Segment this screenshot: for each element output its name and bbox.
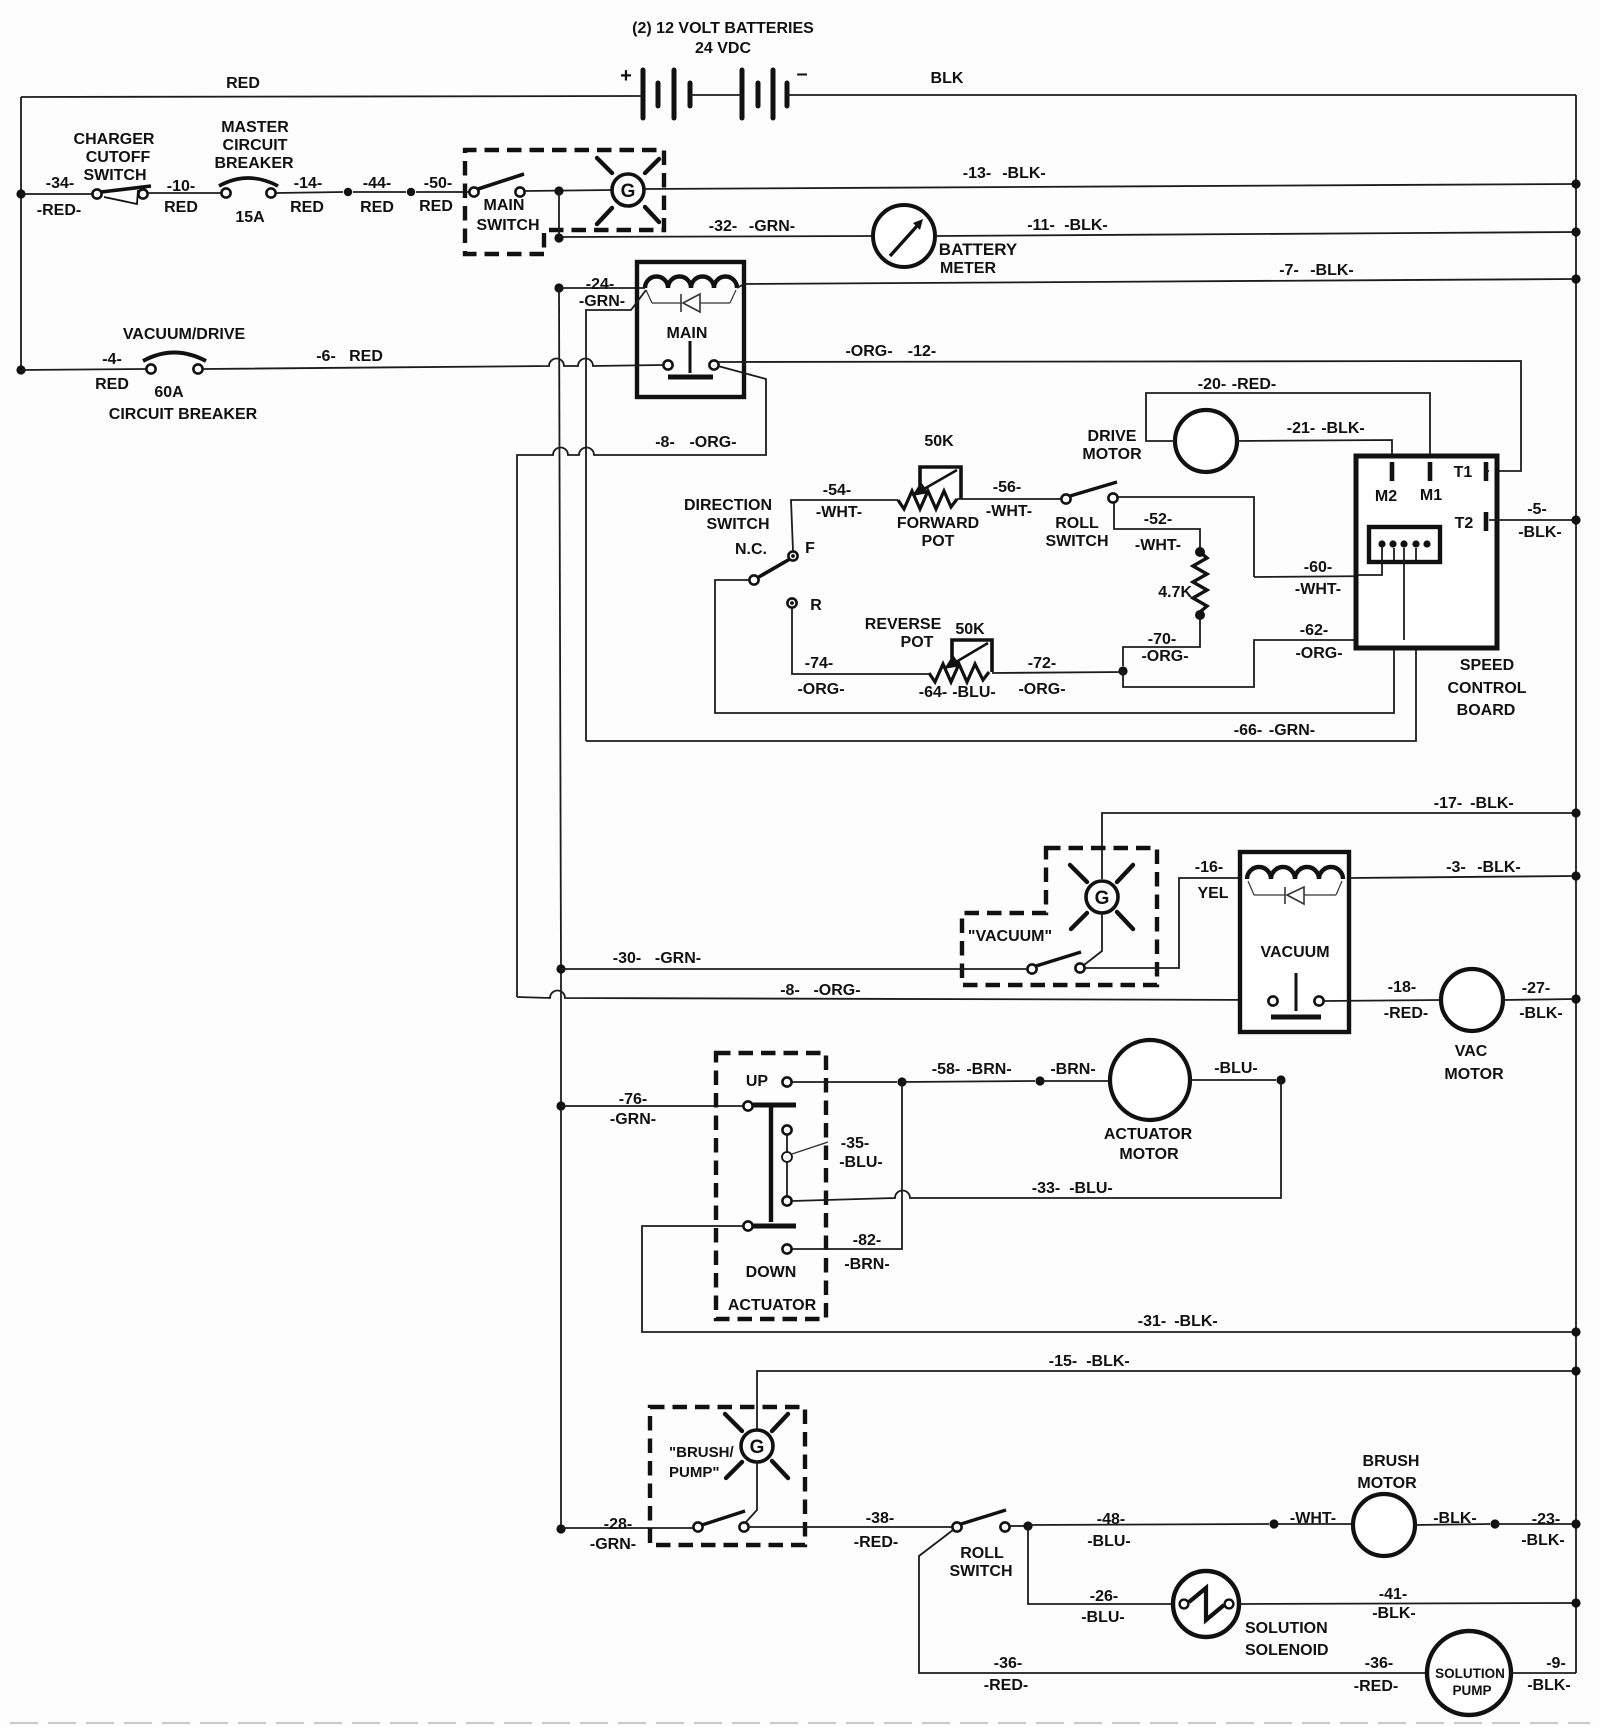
svg-text:-12-: -12- bbox=[908, 343, 936, 360]
svg-text:-32-: -32- bbox=[709, 218, 737, 235]
wire -15- -BLK- bbox=[757, 1371, 1576, 1430]
terminal M2 blade bbox=[1390, 462, 1395, 481]
wire -62- -ORG- bbox=[1123, 632, 1404, 687]
svg-text:-RED-: -RED- bbox=[984, 1677, 1028, 1694]
wire -60- -WHT- bbox=[1254, 576, 1382, 577]
svg-text:-16-: -16- bbox=[1195, 859, 1223, 876]
terminal dot -WHT- bbox=[1269, 1519, 1278, 1528]
svg-text:-BLK-: -BLK- bbox=[1518, 524, 1562, 541]
wire -38- -RED- bbox=[749, 1526, 953, 1528]
svg-text:-26-: -26- bbox=[1090, 1588, 1118, 1605]
svg-text:-WHT-: -WHT- bbox=[986, 503, 1032, 520]
wire -21- -BLK- bbox=[1237, 440, 1392, 462]
contactor K2 contact bbox=[1295, 973, 1298, 1011]
svg-text:"BRUSH/: "BRUSH/ bbox=[669, 1444, 734, 1461]
terminal dot -BLK- bbox=[1490, 1519, 1499, 1528]
svg-text:-70-: -70- bbox=[1148, 631, 1176, 648]
switch S3 blade bbox=[757, 559, 790, 578]
svg-text:MAIN: MAIN bbox=[484, 197, 525, 214]
junction dot rail -7- bbox=[1571, 274, 1580, 283]
wire -9- -BLK- bbox=[1511, 1672, 1576, 1674]
wire -7- -BLK- bbox=[744, 279, 1576, 284]
svg-text:-36-: -36- bbox=[1365, 1655, 1393, 1672]
svg-text:MASTER: MASTER bbox=[221, 119, 289, 136]
junction dot -28- bbox=[556, 1524, 565, 1533]
wire main switch to lamp bbox=[525, 190, 612, 191]
wire -4- RED bbox=[21, 369, 146, 370]
svg-text:BREAKER: BREAKER bbox=[214, 155, 294, 172]
svg-text:-74-: -74- bbox=[805, 655, 833, 672]
indicator lamp G2 vacuum bbox=[1086, 881, 1118, 913]
connector J1 bbox=[1369, 527, 1440, 562]
svg-text:RED: RED bbox=[349, 348, 383, 365]
wire -13- -BLK- lamp to rail bbox=[644, 184, 1576, 189]
svg-text:RED: RED bbox=[226, 75, 260, 92]
wire direction common return bbox=[715, 548, 1394, 713]
switch S3 direction R contact bbox=[787, 598, 796, 607]
svg-text:-6-: -6- bbox=[316, 348, 336, 365]
svg-text:15A: 15A bbox=[235, 209, 265, 226]
svg-text:-RED-: -RED- bbox=[1384, 1005, 1428, 1022]
solenoid L1 SOLUTION bbox=[1173, 1571, 1239, 1637]
svg-text:-BRN-: -BRN- bbox=[844, 1256, 889, 1273]
motor M3 VAC bbox=[1441, 969, 1503, 1031]
svg-text:-33-: -33- bbox=[1032, 1180, 1060, 1197]
contactor K1 coil bbox=[645, 277, 737, 289]
svg-text:FORWARD: FORWARD bbox=[897, 515, 979, 532]
pot R1 FORWARD 50K bbox=[898, 491, 957, 509]
svg-text:-BLK-: -BLK- bbox=[1477, 859, 1521, 876]
svg-text:-BLU-: -BLU- bbox=[1087, 1533, 1131, 1550]
svg-text:RED: RED bbox=[164, 199, 198, 216]
wire -82- -BRN- bbox=[792, 1082, 902, 1249]
svg-text:-BLK-: -BLK- bbox=[1321, 420, 1365, 437]
svg-text:POT: POT bbox=[901, 634, 934, 651]
svg-text:ACTUATOR: ACTUATOR bbox=[728, 1297, 817, 1314]
svg-text:-GRN-: -GRN- bbox=[1269, 722, 1315, 739]
svg-text:ROLL: ROLL bbox=[1055, 515, 1099, 532]
junction dot -58- bbox=[897, 1077, 906, 1086]
switch S6 actuator UP contact bbox=[782, 1077, 791, 1086]
svg-text:-10-: -10- bbox=[167, 178, 195, 195]
svg-text:-BLK-: -BLK- bbox=[1064, 217, 1108, 234]
wire pin3 drop bbox=[1403, 548, 1405, 640]
junction dot -32- bbox=[554, 233, 563, 242]
wire -32- -GRN- bbox=[559, 236, 873, 237]
svg-text:-9-: -9- bbox=[1546, 1655, 1566, 1672]
svg-text:G: G bbox=[1095, 888, 1110, 909]
junction dot -48- bbox=[1023, 1521, 1032, 1530]
switch S6 mid contacts bbox=[782, 1125, 791, 1134]
svg-text:-58-: -58- bbox=[932, 1061, 960, 1078]
svg-text:RED: RED bbox=[95, 376, 129, 393]
svg-text:T2: T2 bbox=[1455, 515, 1474, 532]
svg-text:-11-: -11- bbox=[1027, 217, 1055, 234]
junction dot -24- bbox=[554, 283, 563, 292]
junction dot rail -11- bbox=[1571, 227, 1580, 236]
wire -31- -BLK- bbox=[642, 1226, 1576, 1332]
wire -23- -BLK- bbox=[1495, 1523, 1576, 1525]
svg-text:-BLU-: -BLU- bbox=[1214, 1060, 1258, 1077]
wire roll sw to -60- corner bbox=[1117, 497, 1254, 577]
svg-text:-RED-: -RED- bbox=[854, 1534, 898, 1551]
svg-text:N.C.: N.C. bbox=[735, 541, 767, 558]
wire pin2 drop bbox=[1393, 548, 1395, 560]
svg-text:VACUUM/DRIVE: VACUUM/DRIVE bbox=[123, 326, 246, 343]
svg-text:PUMP: PUMP bbox=[1452, 1683, 1491, 1698]
svg-text:-21-: -21- bbox=[1287, 420, 1315, 437]
svg-text:SWITCH: SWITCH bbox=[476, 217, 539, 234]
node green bus vertical bbox=[559, 288, 561, 969]
wire -34- -RED- bbox=[21, 193, 92, 195]
wire -ORG- -12- to T1 bbox=[718, 361, 1521, 471]
svg-text:REVERSE: REVERSE bbox=[865, 616, 942, 633]
svg-text:-36-: -36- bbox=[994, 1655, 1022, 1672]
wire -66- -GRN- bbox=[586, 548, 1416, 741]
svg-text:DRIVE: DRIVE bbox=[1088, 428, 1137, 445]
switch S4 roll switch drive bbox=[1061, 494, 1070, 503]
wire -BRN- to actuator motor bbox=[1040, 1080, 1109, 1082]
brush/pump switch dashed box bbox=[650, 1407, 805, 1545]
svg-text:-35-: -35- bbox=[841, 1135, 869, 1152]
svg-text:-82-: -82- bbox=[853, 1232, 881, 1249]
wire lamp G3 lower lead bbox=[746, 1462, 757, 1522]
wire -52- -WHT- drop bbox=[1114, 503, 1200, 549]
svg-text:-WHT-: -WHT- bbox=[1135, 537, 1181, 554]
contactor K2 coil bbox=[1247, 867, 1343, 879]
wire -WHT- to brush motor bbox=[1274, 1523, 1353, 1525]
wire -58- -BRN- bbox=[902, 1081, 1035, 1082]
vacuum switch dashed box bbox=[962, 848, 1157, 985]
wire -11- -BLK- bbox=[936, 232, 1576, 236]
junction dot rail -23- bbox=[1571, 1519, 1580, 1528]
wire -41- -BLK- bbox=[1239, 1603, 1576, 1604]
svg-text:-ORG-: -ORG- bbox=[1018, 681, 1065, 698]
main switch dashed box bbox=[465, 150, 664, 254]
terminal M1 blade bbox=[1428, 462, 1433, 481]
svg-text:-30-: -30- bbox=[613, 950, 641, 967]
svg-text:MOTOR: MOTOR bbox=[1082, 446, 1142, 463]
svg-text:-BLK-: -BLK- bbox=[1310, 262, 1354, 279]
svg-text:-BLK-: -BLK- bbox=[1521, 1532, 1565, 1549]
svg-text:-BRN-: -BRN- bbox=[1050, 1061, 1095, 1078]
svg-text:-7-: -7- bbox=[1279, 262, 1299, 279]
switch S5 vacuum bbox=[1027, 964, 1036, 973]
wire F up to -54- bbox=[791, 500, 898, 551]
svg-text:4.7K: 4.7K bbox=[1158, 584, 1192, 601]
svg-text:-38-: -38- bbox=[866, 1510, 894, 1527]
svg-text:RED: RED bbox=[290, 199, 324, 216]
svg-text:-GRN-: -GRN- bbox=[655, 950, 701, 967]
wire coil right to -7- bbox=[737, 284, 744, 288]
wire -76- -GRN- bbox=[561, 1105, 744, 1107]
svg-text:CONTROL: CONTROL bbox=[1447, 680, 1526, 697]
junction dot rail -27- bbox=[1571, 994, 1580, 1003]
svg-text:M2: M2 bbox=[1375, 488, 1397, 505]
terminal dot bbox=[407, 188, 415, 196]
junction dot -70-/-72-/-62- bbox=[1118, 666, 1127, 675]
svg-text:-BLK-: -BLK- bbox=[1372, 1605, 1416, 1622]
svg-text:-31-: -31- bbox=[1138, 1313, 1166, 1330]
svg-text:-RED-: -RED- bbox=[1232, 376, 1276, 393]
terminal T2 blade bbox=[1484, 512, 1489, 531]
svg-text:24 VDC: 24 VDC bbox=[695, 40, 751, 57]
wire lamp G2 lower lead bbox=[1084, 913, 1102, 965]
switch S3 direction common bbox=[749, 575, 758, 584]
wire -33- -BLU- bbox=[792, 1080, 1281, 1201]
svg-text:-50-: -50- bbox=[424, 175, 452, 192]
svg-text:-WHT-: -WHT- bbox=[1290, 1510, 1336, 1527]
svg-text:F: F bbox=[805, 540, 815, 557]
battery B1 (2x12V) bbox=[643, 70, 787, 118]
circuit breaker CB2 60A bbox=[146, 364, 155, 373]
svg-text:-64-: -64- bbox=[919, 684, 947, 701]
svg-text:-WHT-: -WHT- bbox=[816, 504, 862, 521]
svg-text:-BLK-: -BLK- bbox=[1470, 795, 1514, 812]
svg-text:"VACUUM": "VACUUM" bbox=[968, 928, 1052, 945]
svg-text:-41-: -41- bbox=[1379, 1586, 1407, 1603]
svg-text:SWITCH: SWITCH bbox=[706, 516, 769, 533]
svg-text:-BLK-: -BLK- bbox=[1519, 1005, 1563, 1022]
svg-text:-5-: -5- bbox=[1527, 501, 1547, 518]
wire pin4 drop bbox=[1415, 548, 1417, 560]
junction dot -30- bbox=[556, 964, 565, 973]
svg-text:-60-: -60- bbox=[1304, 559, 1332, 576]
svg-text:-24-: -24- bbox=[586, 276, 614, 293]
svg-text:MOTOR: MOTOR bbox=[1444, 1066, 1504, 1083]
wire T2 -5- -BLK- bbox=[1489, 519, 1576, 521]
svg-text:-54-: -54- bbox=[823, 482, 851, 499]
junction dot rail -3- bbox=[1571, 871, 1580, 880]
wire -16- YEL bbox=[1085, 878, 1247, 968]
pot R2 REVERSE 50K bbox=[929, 664, 989, 682]
svg-text:SOLENOID: SOLENOID bbox=[1245, 1642, 1329, 1659]
wire -8- -ORG- lower run bbox=[517, 991, 1269, 1000]
svg-text:-BLU-: -BLU- bbox=[952, 684, 996, 701]
wire UP to -58- bbox=[792, 1081, 897, 1083]
indicator lamp G3 brush/pump bbox=[741, 1430, 773, 1462]
svg-text:RED: RED bbox=[360, 199, 394, 216]
wire -72- -ORG- bbox=[992, 672, 1123, 673]
wire -BLK- from brush motor bbox=[1415, 1524, 1490, 1525]
svg-text:SOLUTION: SOLUTION bbox=[1435, 1666, 1505, 1681]
wire -18- -RED- bbox=[1324, 1000, 1441, 1001]
switch S3 direction F contact bbox=[788, 551, 797, 560]
junction dot bbox=[554, 186, 563, 195]
svg-text:-BRN-: -BRN- bbox=[966, 1061, 1011, 1078]
svg-text:+: + bbox=[620, 65, 632, 87]
svg-text:MOTOR: MOTOR bbox=[1357, 1475, 1417, 1492]
motor M5 BRUSH bbox=[1353, 1494, 1415, 1556]
wire top BLK bbox=[787, 94, 1576, 96]
svg-text:-13-: -13- bbox=[963, 165, 991, 182]
svg-text:MAIN: MAIN bbox=[667, 325, 708, 342]
svg-text:-56-: -56- bbox=[993, 479, 1021, 496]
node wire drop to -32- junction bbox=[558, 191, 560, 238]
svg-text:-34-: -34- bbox=[46, 175, 74, 192]
svg-text:-RED-: -RED- bbox=[1354, 1678, 1398, 1695]
svg-text:T1: T1 bbox=[1454, 464, 1473, 481]
svg-text:BLK: BLK bbox=[931, 70, 964, 87]
svg-text:-14-: -14- bbox=[294, 175, 322, 192]
actuator switch dashed box bbox=[716, 1053, 826, 1319]
svg-text:M1: M1 bbox=[1420, 487, 1442, 504]
svg-text:-8-: -8- bbox=[655, 434, 675, 451]
svg-text:-8-: -8- bbox=[780, 982, 800, 999]
wire -24- -GRN- bbox=[559, 287, 645, 289]
junction dot rail -41- bbox=[1571, 1598, 1580, 1607]
junction dot rail -15- bbox=[1571, 1366, 1580, 1375]
wire -50- RED bbox=[416, 191, 469, 193]
svg-text:MOTOR: MOTOR bbox=[1119, 1146, 1179, 1163]
svg-text:DOWN: DOWN bbox=[746, 1264, 797, 1281]
wire coil left down -66- branch bbox=[586, 290, 646, 741]
svg-text:-3-: -3- bbox=[1446, 859, 1466, 876]
pump M6 SOLUTION bbox=[1427, 1631, 1511, 1715]
svg-text:60A: 60A bbox=[154, 384, 184, 401]
svg-text:-48-: -48- bbox=[1097, 1511, 1125, 1528]
svg-text:-ORG-: -ORG- bbox=[813, 982, 860, 999]
svg-text:ROLL: ROLL bbox=[960, 1545, 1004, 1562]
junction dot rail -31- bbox=[1571, 1327, 1580, 1336]
svg-text:SOLUTION: SOLUTION bbox=[1245, 1620, 1328, 1637]
svg-text:SWITCH: SWITCH bbox=[83, 167, 146, 184]
svg-text:-66-: -66- bbox=[1234, 722, 1262, 739]
wire T1 stub bbox=[1486, 470, 1489, 472]
svg-text:-BLK-: -BLK- bbox=[1002, 165, 1046, 182]
junction dot left rail row1 bbox=[16, 189, 25, 198]
battery meter M1 bbox=[873, 205, 935, 267]
svg-text:METER: METER bbox=[940, 260, 996, 277]
svg-text:YEL: YEL bbox=[1197, 885, 1228, 902]
svg-text:-27-: -27- bbox=[1522, 980, 1550, 997]
switch S1 charger cutoff bbox=[92, 189, 101, 198]
terminal dot left rail end bbox=[16, 365, 25, 374]
svg-text:DIRECTION: DIRECTION bbox=[684, 497, 772, 514]
page bottom scan edge bbox=[10, 1722, 1590, 1724]
svg-text:POT: POT bbox=[922, 533, 955, 550]
svg-text:CHARGER: CHARGER bbox=[74, 131, 155, 148]
svg-text:-44-: -44- bbox=[363, 175, 391, 192]
svg-text:-BLK-: -BLK- bbox=[1527, 1677, 1571, 1694]
svg-text:BRUSH: BRUSH bbox=[1363, 1453, 1420, 1470]
svg-text:-52-: -52- bbox=[1144, 511, 1172, 528]
circuit breaker CB1 15A bbox=[221, 188, 230, 197]
wire top left RED bbox=[21, 96, 643, 97]
svg-text:CUTOFF: CUTOFF bbox=[86, 149, 151, 166]
switch S7 brush/pump bbox=[693, 1522, 702, 1531]
svg-text:-20-: -20- bbox=[1198, 376, 1226, 393]
wire -70- -ORG- bbox=[1123, 615, 1200, 666]
wire -BLU- to corner bbox=[1190, 1079, 1276, 1081]
svg-text:-BLU-: -BLU- bbox=[1069, 1180, 1113, 1197]
svg-text:–: – bbox=[796, 63, 807, 85]
node left rail bbox=[20, 97, 22, 370]
svg-text:-ORG-: -ORG- bbox=[845, 343, 892, 360]
switch S6 pole lower bbox=[743, 1221, 752, 1230]
wire -74- -ORG- bbox=[792, 608, 929, 674]
svg-text:-BLK-: -BLK- bbox=[1433, 1510, 1477, 1527]
svg-text:-28-: -28- bbox=[604, 1516, 632, 1533]
svg-text:CIRCUIT: CIRCUIT bbox=[223, 137, 288, 154]
contactor K1 MAIN box bbox=[637, 262, 744, 397]
terminal T1 blade bbox=[1484, 462, 1489, 481]
junction dot rail -17- bbox=[1571, 808, 1580, 817]
wire -36- -RED- lower bbox=[919, 1530, 1427, 1673]
svg-text:-BLK-: -BLK- bbox=[1086, 1353, 1130, 1370]
wire -48- -BLU- bbox=[1028, 1524, 1269, 1525]
wire -3- -BLK- bbox=[1349, 876, 1576, 878]
wire -44- RED bbox=[353, 191, 406, 193]
svg-text:R: R bbox=[810, 597, 822, 614]
svg-text:50K: 50K bbox=[924, 433, 954, 450]
svg-text:-ORG-: -ORG- bbox=[689, 434, 736, 451]
wire -20- -RED- bbox=[1146, 393, 1430, 462]
switch S8 roll switch brush bbox=[952, 1522, 961, 1531]
junction dot rail -13- bbox=[1571, 179, 1580, 188]
wire -17- -BLK- bbox=[1102, 813, 1576, 879]
svg-text:-4-: -4- bbox=[102, 351, 122, 368]
switch S2 main switch bbox=[469, 187, 478, 196]
svg-text:G: G bbox=[621, 181, 636, 202]
svg-text:50K: 50K bbox=[955, 621, 985, 638]
motor M4 ACTUATOR bbox=[1110, 1040, 1190, 1120]
svg-text:VACUUM: VACUUM bbox=[1260, 944, 1329, 961]
terminal dot bbox=[344, 188, 352, 196]
contactor K2 suppression diode bbox=[1248, 881, 1254, 895]
svg-text:-GRN-: -GRN- bbox=[590, 1536, 636, 1553]
svg-text:-23-: -23- bbox=[1532, 1511, 1560, 1528]
wire pin1 to -60- bbox=[1357, 547, 1382, 575]
svg-text:-BLU-: -BLU- bbox=[839, 1154, 883, 1171]
contactor K1 suppression diode bbox=[646, 290, 652, 303]
speed control board U1 bbox=[1356, 456, 1497, 648]
svg-text:-GRN-: -GRN- bbox=[610, 1111, 656, 1128]
wire -10- RED bbox=[148, 192, 221, 194]
wire -6- RED bbox=[203, 359, 663, 369]
svg-text:-72-: -72- bbox=[1028, 655, 1056, 672]
contactor K1 contact bbox=[689, 341, 692, 373]
svg-text:(2) 12 VOLT BATTERIES: (2) 12 VOLT BATTERIES bbox=[632, 20, 814, 37]
svg-text:UP: UP bbox=[746, 1073, 769, 1090]
switch S6 pole upper bbox=[743, 1101, 752, 1110]
wire -35- -BLU- link bbox=[786, 1135, 788, 1196]
svg-text:-RED-: -RED- bbox=[37, 202, 81, 219]
indicator lamp G1 main bbox=[612, 174, 644, 206]
svg-text:ACTUATOR: ACTUATOR bbox=[1104, 1126, 1193, 1143]
wire -26- -BLU- bbox=[1028, 1526, 1173, 1604]
svg-text:-62-: -62- bbox=[1300, 622, 1328, 639]
svg-text:RED: RED bbox=[419, 198, 453, 215]
svg-text:-WHT-: -WHT- bbox=[1295, 581, 1341, 598]
svg-text:-17-: -17- bbox=[1434, 795, 1462, 812]
connector J1 pins bbox=[1378, 540, 1385, 547]
svg-text:-GRN-: -GRN- bbox=[579, 293, 625, 310]
svg-text:-ORG-: -ORG- bbox=[797, 681, 844, 698]
terminal dot -BRN- bbox=[1035, 1076, 1044, 1085]
svg-text:-15-: -15- bbox=[1049, 1353, 1077, 1370]
svg-text:-BLK-: -BLK- bbox=[1174, 1313, 1218, 1330]
svg-text:-18-: -18- bbox=[1388, 979, 1416, 996]
junction dot -BLU- bbox=[1276, 1075, 1285, 1084]
wire roll2 to -48- bbox=[1010, 1525, 1024, 1527]
wire -30- -GRN- bbox=[561, 968, 1027, 970]
svg-text:VAC: VAC bbox=[1455, 1043, 1488, 1060]
svg-text:PUMP": PUMP" bbox=[669, 1464, 719, 1481]
node right rail BLK bbox=[1575, 95, 1577, 1673]
wire -8- -ORG- from main contact bbox=[517, 366, 766, 997]
junction dot rail -5- bbox=[1571, 515, 1580, 524]
